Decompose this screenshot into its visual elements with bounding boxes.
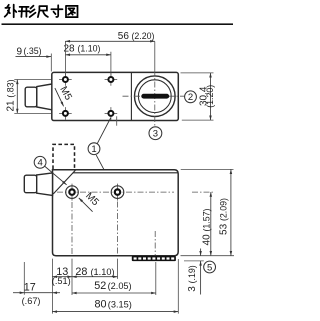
screw hole bottom-right [105, 107, 118, 120]
dim 40 (1.57) [192, 191, 214, 193]
dim 3 (.19) [184, 260, 204, 262]
外 [5, 5, 10, 17]
dim 52 (2.05) [72, 292, 156, 294]
M5 label (top view) [55, 88, 64, 106]
leader 4 [44, 166, 66, 185]
connector small block [25, 87, 37, 107]
dim 30.4 (1.20) [210, 73, 212, 120]
callout 1 [88, 143, 100, 155]
dim 28 (1.10) top [65, 54, 111, 56]
svg-text:(.35): (.35) [24, 46, 42, 56]
hidden head (dashed) [53, 144, 75, 169]
svg-text:(3.15): (3.15) [108, 300, 132, 310]
body outline [53, 170, 179, 256]
connector small block (side) [24, 175, 36, 193]
screw hole bottom-left [59, 107, 72, 120]
svg-text:(1.10): (1.10) [78, 43, 101, 53]
leader 1 up [97, 118, 110, 144]
dim 56 (2.20) [65, 40, 154, 42]
dial outer circle [135, 76, 176, 117]
svg-text:2: 2 [188, 92, 193, 103]
svg-text:4: 4 [37, 158, 42, 169]
dim 13 (.51) [52, 276, 72, 278]
svg-text:80: 80 [95, 299, 107, 311]
svg-text:28: 28 [75, 266, 87, 278]
形 [19, 7, 30, 17]
dim 80 (3.15) [52, 311, 178, 313]
图 [66, 6, 78, 17]
head section divider [130, 72, 132, 120]
extension lines top [51, 41, 111, 76]
connector taper block [37, 84, 52, 110]
svg-text:1: 1 [91, 144, 96, 155]
callout 4 [34, 156, 46, 168]
svg-text:21 (.83): 21 (.83) [6, 79, 17, 111]
dim 21 (.83) [16, 80, 18, 114]
callout 2 [185, 91, 197, 103]
tick below body [116, 116, 118, 125]
dial horizontal centerline [123, 95, 185, 97]
svg-text:9: 9 [17, 46, 23, 57]
dim 53 (2.09) [181, 169, 235, 255]
lid seam line [73, 172, 178, 174]
centerline through holes [57, 191, 174, 193]
dial slot bar [141, 94, 169, 99]
callout 3 [149, 127, 162, 140]
svg-text:56: 56 [118, 31, 130, 42]
svg-text:3: 3 [153, 129, 158, 140]
svg-text:5: 5 [207, 262, 212, 273]
svg-text:52: 52 [94, 280, 106, 292]
corner bevel edge [53, 170, 75, 194]
body outline [52, 72, 179, 120]
terminal strip [132, 256, 176, 261]
svg-text:(.51): (.51) [52, 276, 71, 286]
svg-text:(1.20): (1.20) [205, 85, 215, 108]
dial inner circle [138, 80, 171, 113]
connector taper block (side) [37, 173, 53, 196]
svg-text:(1.10): (1.10) [91, 267, 115, 277]
axis centerlines going down [72, 202, 155, 256]
dim 9 (.35) leader [16, 56, 52, 58]
M5 label (side view) [79, 198, 93, 212]
callout 5 [204, 261, 216, 273]
title 外形尺寸图 (drawn strokes) [5, 5, 78, 18]
svg-text:(.67): (.67) [22, 296, 41, 306]
hole left (side view) [71, 184, 73, 201]
dial vertical centerline [154, 42, 156, 71]
svg-text:(2.20): (2.20) [132, 31, 155, 41]
寸 [51, 5, 62, 17]
svg-text:40 (1.57): 40 (1.57) [201, 208, 212, 245]
dim 28 (1.10) bottom [72, 276, 118, 278]
screw hole top-left [59, 73, 72, 86]
svg-text:(2.05): (2.05) [108, 281, 132, 291]
svg-text:53 (2.09): 53 (2.09) [218, 198, 229, 235]
hole right (side view) [117, 184, 119, 201]
尺 [38, 6, 48, 17]
screw hole top-right [105, 73, 118, 86]
title underline [2, 23, 234, 25]
leader 1 down [96, 155, 113, 187]
svg-text:3 (.19): 3 (.19) [187, 265, 198, 292]
svg-text:17: 17 [24, 282, 36, 294]
bottom extension lines [24, 259, 178, 314]
dim 17 (.67) [13, 292, 24, 294]
